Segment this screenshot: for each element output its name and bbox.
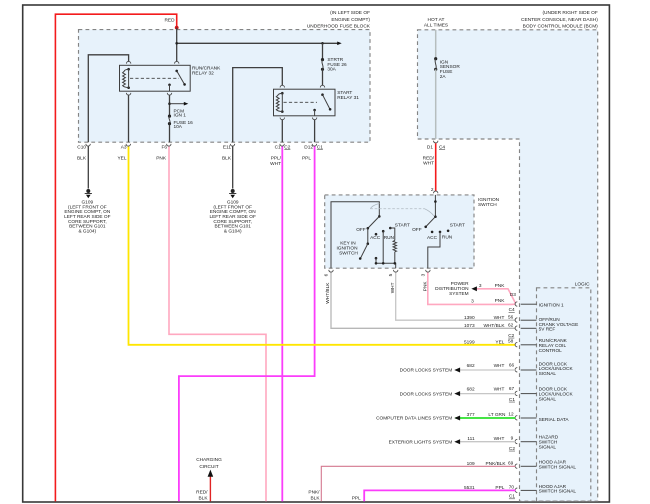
svg-text:UNDERHOOD FUSE BLOCK: UNDERHOOD FUSE BLOCK [307,24,371,30]
wire 111 WHT to BCM 9 [456,441,516,443]
signal OFF/RUN CRANK VOLTAGE 5V REF [539,317,579,333]
svg-text:RUN: RUN [442,235,453,241]
svg-text:CONTROL: CONTROL [539,348,563,354]
svg-text:START: START [395,222,410,228]
svg-text:377: 377 [467,412,475,418]
wire 682 labels (66) [467,363,515,369]
svg-text:C1: C1 [275,145,281,151]
charging circuit arrow and wire RED/BLK [208,470,214,502]
svg-text:C10: C10 [77,145,86,151]
fuse PCM IGN 1 FUSE 16 10A [168,115,171,126]
svg-text:SWITCH SIGNAL: SWITCH SIGNAL [539,489,577,495]
wire 1073 labels [464,322,514,329]
svg-text:3: 3 [479,283,482,289]
svg-text:SIGNAL: SIGNAL [539,371,557,377]
contact OFF (left switch) [367,227,370,230]
signal HAZARD SWITCH SIGNAL [539,435,559,451]
svg-text:D3: D3 [510,292,516,298]
svg-text:DOOR LOCKS SYSTEM: DOOR LOCKS SYSTEM [400,391,453,397]
wire 111 labels [467,435,513,442]
contact OFF (right switch) [424,226,427,229]
svg-text:ENGINE COMPT): ENGINE COMPT) [331,17,370,23]
svg-text:SWITCH: SWITCH [339,251,358,257]
svg-text:YEL: YEL [495,340,504,346]
label ground G109 (left) [64,200,111,235]
svg-text:58: 58 [508,339,514,345]
run/crank relay 32 [120,65,191,91]
svg-text:12: 12 [508,412,514,418]
svg-text:C4: C4 [509,307,515,313]
label POWER DISTRIBUTION SYSTEM [435,281,469,297]
ignition switch wiper to OFF [426,217,435,227]
svg-text:POWER: POWER [451,281,470,287]
svg-text:SENSOR: SENSOR [440,64,461,70]
svg-text:SIGNAL: SIGNAL [539,396,557,402]
svg-text:IGN 1: IGN 1 [174,113,187,119]
svg-text:56: 56 [508,314,514,320]
contact RUN (right switch) with output [428,231,442,269]
node junction with branch arrow [168,102,171,105]
ignition switch bottom pin cups [329,270,430,272]
wire HOT AT ALL TIMES feed inside BCM [435,30,437,59]
contact ACC (left switch, open) [375,233,378,236]
signal RUN/CRANK RELAY COIL CONTROL [539,338,568,354]
svg-text:D1: D1 [427,144,433,150]
svg-text:BLK: BLK [311,495,321,501]
svg-text:ALL TIMES: ALL TIMES [424,23,448,29]
svg-text:RELAY 32: RELAY 32 [192,70,214,76]
svg-text:682: 682 [467,363,475,369]
relay 32 pin cups [126,61,178,95]
svg-text:109: 109 [467,461,475,467]
ground G109 (left) [85,189,92,198]
label start relay 31 [337,90,359,101]
arrow to exterior lights system [454,439,460,444]
arrow branch to other circuits [170,102,189,106]
svg-text:1390: 1390 [464,315,475,321]
key-in switch feed wire (from pin 6 up and over) [331,202,379,269]
svg-text:BODY CONTROL MODULE (BCM): BODY CONTROL MODULE (BCM) [523,24,599,30]
relay 32 switch [168,70,186,92]
contact ACC (right switch) [431,231,434,234]
svg-text:C4: C4 [439,144,445,150]
svg-text:5V REF: 5V REF [539,327,556,333]
svg-text:C1: C1 [509,397,515,403]
wire RED/WHT BCM to ignition switch [435,143,437,191]
key-in switch wiper to OFF [368,216,379,228]
wire fuse to BCM pin D1 [435,69,437,139]
pin cup ignition switch top [433,191,437,193]
svg-text:HOT AT: HOT AT [428,17,445,23]
svg-text:5: 5 [388,273,394,276]
svg-text:RED/: RED/ [196,489,208,495]
svg-text:6: 6 [323,273,329,276]
node feed dot upper [434,200,437,203]
wire WHT ignition pin 5 to BCM pin 56 [396,273,516,321]
start relay 31 [274,89,336,116]
svg-text:PNK: PNK [156,156,167,162]
svg-text:SIGNAL: SIGNAL [539,445,557,451]
svg-text:WHT: WHT [494,363,505,369]
underhood fuse block (dashed box) [79,30,371,143]
svg-text:PPL/: PPL/ [271,156,282,162]
wire YEL from relay A3 down and across to BCM pin 58 [128,95,130,142]
svg-text:CENTER CONSOLE, NEAR DASH): CENTER CONSOLE, NEAR DASH) [521,17,598,23]
wire PNK fuse to F6 [169,125,171,142]
svg-text:DISTRIBUTION: DISTRIBUTION [435,286,469,292]
svg-text:PPL: PPL [352,495,361,501]
wire 5531 labels [464,485,514,492]
svg-text:WHT: WHT [270,161,281,167]
label RED/BLK [196,489,208,501]
svg-text:30A: 30A [327,67,336,73]
arrow to door locks system (67) [454,391,460,396]
svg-text:PNK/BLK: PNK/BLK [486,461,507,467]
label relay 32 [192,65,221,76]
BCM pin cups on left edge [515,302,517,493]
label KEY IN IGNITION SWITCH [336,241,358,257]
wire BLK C10 to ground G109 [87,146,89,188]
svg-text:111: 111 [467,436,475,442]
ground G109 (right) [229,189,236,198]
svg-text:1073: 1073 [464,323,475,329]
contact RUN (left switch) [382,230,385,263]
fuse IGN SENSOR FUSE 2A [434,57,437,71]
svg-text:& G104): & G104) [224,228,242,234]
wire PPL/WHT from start relay coil C1/C2 to bottom edge [281,120,283,142]
svg-text:10A: 10A [174,124,183,130]
node junction STRTR fuse feed [321,42,324,45]
svg-text:LT GRN: LT GRN [488,412,506,418]
svg-text:E11: E11 [223,145,231,151]
wire 109 labels [467,460,514,467]
svg-text:ACC: ACC [427,235,438,241]
svg-text:69: 69 [508,460,514,466]
label circuit 3 PNK (upper) [479,283,505,289]
pin label C1 / connector C2 [275,145,291,151]
svg-text:RED: RED [164,18,175,24]
svg-text:WHT: WHT [494,386,505,392]
svg-text:START: START [450,222,465,228]
svg-text:WHT: WHT [494,315,505,321]
svg-text:PNK: PNK [495,298,506,304]
svg-text:62: 62 [508,322,514,328]
svg-text:PNK/: PNK/ [308,490,320,496]
svg-text:PPL: PPL [495,485,504,491]
wire from RED node down to run/crank relay switch pin [176,28,178,62]
wire 682 labels (67) [467,386,515,392]
pin label D12 / connector C1 [304,145,323,151]
svg-text:5199: 5199 [464,340,475,346]
arrow feed bus right [337,42,342,46]
svg-text:C2: C2 [284,145,290,151]
wire PNK from fuse F6 down, jog right, to bottom edge [169,146,266,501]
svg-text:IGNITION 1: IGNITION 1 [539,303,564,309]
svg-text:SWITCH: SWITCH [478,202,497,208]
svg-text:2A: 2A [440,74,447,80]
svg-text:5531: 5531 [464,485,475,491]
BCM internal pin stubs to logic [521,304,537,490]
wire PNK ignition pin 3 to BCM pin D3 [428,273,516,305]
svg-text:SYSTEM: SYSTEM [449,291,469,297]
svg-text:EXTERIOR LIGHTS SYSTEM: EXTERIOR LIGHTS SYSTEM [389,440,453,446]
svg-text:F6: F6 [161,145,167,151]
node RED junction at fuse block edge [175,26,179,30]
ignition main switch feed wire [434,195,436,217]
svg-text:PPL: PPL [302,156,311,162]
svg-text:SWITCH SIGNAL: SWITCH SIGNAL [539,465,577,471]
relay 31 pin cups [280,85,325,119]
label BCM location [521,10,598,29]
svg-text:YEL: YEL [118,156,127,162]
svg-text:PNK: PNK [495,283,506,289]
node key-in switch common [378,215,381,218]
ignition switch linkage (dashed) [370,204,434,216]
signal DOOR LOCK LOCK/UNLOCK SIGNAL (67) [539,387,574,403]
svg-text:WHT: WHT [494,436,505,442]
svg-text:DOOR LOCKS SYSTEM: DOOR LOCKS SYSTEM [400,368,453,374]
key-in switch bottom bus [375,262,396,268]
svg-text:CHARGING: CHARGING [196,457,222,463]
body control module BCM (dashed L-shaped box) [418,30,598,501]
arrow to power distribution system [471,286,477,291]
svg-text:3: 3 [471,298,474,304]
key-in lower wiper [361,244,368,259]
node ignition switch common [434,215,437,218]
svg-text:BLK: BLK [199,495,209,501]
label CHARGING CIRCUIT [196,457,222,470]
svg-text:C1: C1 [509,494,515,500]
label RED/WHT [423,155,435,166]
ignition switch (dashed box) [325,195,474,268]
wire run/crank relay coil loop to C10 [88,55,128,142]
wire top feed bus to STRTR fuse with arrow [177,42,338,44]
svg-text:A3: A3 [121,145,127,151]
wire 1390 labels [464,314,514,321]
contact START (left switch) with resistor [389,227,397,264]
wire BLK E11 to ground G109 [232,146,234,188]
label ground G109 (right) [210,200,257,235]
contact end dot [359,257,362,260]
svg-text:C2: C2 [509,446,515,452]
label circuit 3 PNK (lower) [471,298,505,304]
contact START (right switch) [447,230,450,233]
wire 109 PNK/BLK from bottom edge to BCM 69 [321,466,515,501]
svg-text:RUN: RUN [384,235,395,241]
svg-text:WHT: WHT [423,160,434,166]
fuse block terminal cups C10 A3 F6 E11 C1C2 D12C1 [86,144,317,146]
svg-text:3: 3 [420,273,426,276]
wire relay32 switch out to PCM IGN1 fuse [169,95,171,115]
svg-text:SERIAL DATA: SERIAL DATA [539,417,570,423]
svg-text:& G104): & G104) [78,228,96,234]
wire 5199 labels [464,339,514,346]
svg-text:RELAY 31: RELAY 31 [337,95,359,101]
node junction relay pin feed [175,42,178,45]
arrow to door locks system (66) [454,368,460,373]
svg-text:LOGIC: LOGIC [575,282,590,288]
wire 5531 PPL from bottom edge to BCM 70 [364,490,515,501]
label IGNITION SWITCH [478,197,500,208]
svg-text:BLK: BLK [77,156,87,162]
svg-text:C2: C2 [508,333,514,339]
wire 682 WHT to BCM 67 [456,393,516,395]
relay 32 coil [123,68,130,89]
wire 377 LT GRN to BCM 12 [456,417,516,419]
label PPL/WHT [270,156,281,167]
svg-text:(IN LEFT SIDE OF: (IN LEFT SIDE OF [330,10,370,16]
wire 377 labels [467,412,514,419]
label IGN SENSOR FUSE 2A [440,59,461,80]
wire PPL from start relay D12/C1 down, left, to bottom edge [314,120,316,142]
svg-text:D12: D12 [304,145,313,151]
wire RED battery feed (left vertical + top horizontal) [55,14,176,501]
svg-text:BLK: BLK [222,156,232,162]
label PNK/BLK (bottom) [308,490,320,502]
logic box (dashed) [537,288,591,501]
relay 31 linkage (dashed) [284,101,318,103]
signal HOOD AJAR SWITCH SIGNAL (69) [539,460,577,471]
svg-text:COMPUTER DATA LINES SYSTEM: COMPUTER DATA LINES SYSTEM [376,416,452,422]
signal HOOD AJAR SWITCH SIGNAL (70) [539,484,577,495]
contact key-in lower [375,257,378,263]
svg-text:C1: C1 [317,145,323,151]
fuse STRTR FUSE 26 30A [321,43,324,85]
svg-text:CIRCUIT: CIRCUIT [199,464,218,470]
svg-text:70: 70 [509,485,515,491]
relay 31 coil [276,92,283,113]
label underhood fuse block location [307,10,371,30]
wire PNK branch to power distribution system [474,289,516,304]
relay 31 switch [313,93,331,115]
wire WHT/BLK ignition pin 6 to BCM pin 62 [331,273,515,329]
label HOT AT ALL TIMES [424,17,448,29]
svg-text:9: 9 [511,435,514,441]
pin label D1 / connector C4 [427,144,446,150]
wire OFF to lower wiper [367,228,369,243]
svg-text:WHT/BLK: WHT/BLK [325,282,331,304]
svg-text:OFF: OFF [356,227,366,233]
label STRTR FUSE 26 30A [327,57,347,73]
svg-text:ACC: ACC [370,235,381,241]
svg-text:WHT/BLK: WHT/BLK [483,323,505,329]
label PCM IGN 1 FUSE 16 10A [174,108,194,130]
svg-text:67: 67 [509,386,515,392]
arrow to computer data lines system [454,416,460,421]
node lower wiper pivot [367,242,370,245]
signal DOOR LOCK LOCK/UNLOCK SIGNAL (66) [539,361,574,377]
svg-text:OFF: OFF [412,227,422,233]
svg-text:682: 682 [467,386,475,392]
svg-text:66: 66 [509,363,515,369]
wire 682 WHT to BCM 66 [456,369,516,371]
svg-text:(UNDER RIGHT SIDE OF: (UNDER RIGHT SIDE OF [542,10,597,16]
relay 32 linkage (dashed) [130,77,179,79]
wire start relay coil loop to E11 [233,68,283,143]
pin cup D1 at BCM edge [433,141,437,143]
